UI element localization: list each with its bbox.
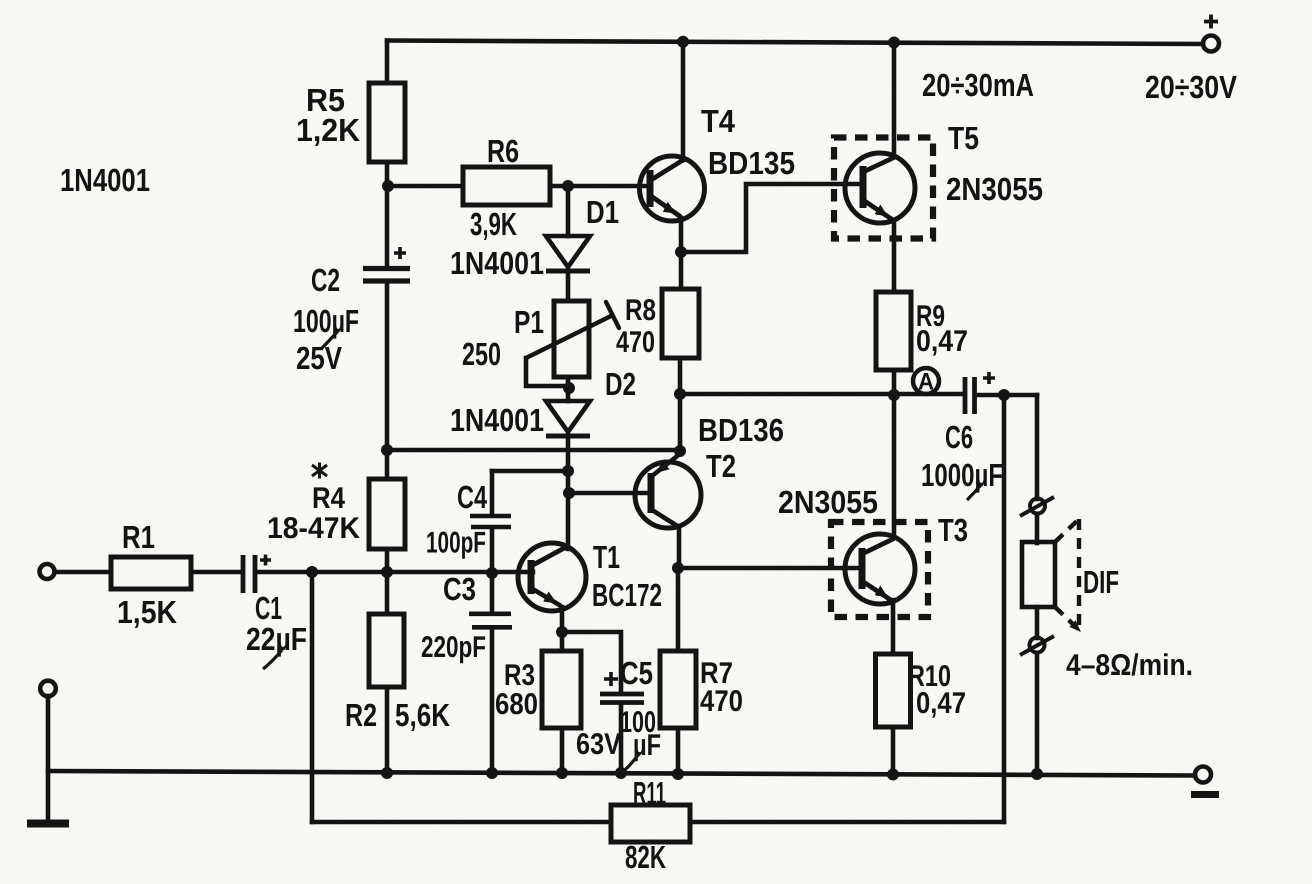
wire T3 emitter to R10 [891, 600, 896, 654]
wire R4 top [385, 450, 390, 479]
node R4 R2 input [381, 566, 393, 578]
capacitor C6 plates [965, 377, 975, 414]
svg-text:22µF: 22µF [246, 621, 307, 657]
wire T4 collector [681, 42, 686, 160]
svg-text:1N4001: 1N4001 [60, 162, 150, 198]
svg-text:0,47: 0,47 [916, 325, 968, 358]
node R7 ground [672, 768, 684, 780]
svg-text:D1: D1 [586, 194, 619, 230]
node T5 collector on rail [888, 37, 900, 49]
wire R8 top [679, 252, 684, 289]
wire ground rail [48, 771, 1195, 776]
node C5 ground [615, 767, 627, 779]
speaker DIF body [1022, 542, 1055, 607]
transistor T4 [640, 156, 705, 221]
wire R4 bottom to R2 top [385, 549, 390, 614]
svg-text:R2: R2 [345, 697, 377, 733]
capacitor C6 polarity plus [983, 372, 995, 384]
svg-text:C6: C6 [945, 419, 973, 455]
resistor R1 [111, 557, 191, 589]
wire T2 emitter column [678, 394, 683, 452]
capacitor C5 polarity plus [604, 672, 618, 686]
wire R3 bottom to ground rail [560, 728, 565, 773]
resistor R7 [660, 651, 696, 728]
input ground terminal [40, 681, 56, 697]
diode D2 [546, 401, 590, 436]
svg-text:0,47: 0,47 [916, 687, 966, 720]
wire C6 output to speaker branch [976, 393, 1037, 398]
svg-text:A: A [918, 369, 934, 396]
supply plus sign [1204, 15, 1218, 29]
transistor T3 [845, 534, 915, 604]
svg-text:C5: C5 [620, 655, 653, 691]
resistor R10 [876, 654, 911, 727]
svg-text:63V: 63V [576, 728, 621, 761]
connector bottom of speaker [1020, 636, 1054, 655]
wire node bias to R6 [387, 184, 463, 189]
node D1 top [562, 180, 574, 192]
node R3 ground [556, 767, 568, 779]
node T4 emitter [675, 246, 687, 258]
mu tail of 22uF [263, 650, 282, 669]
ammeter A [913, 368, 939, 396]
svg-text:R8: R8 [625, 294, 656, 327]
output minus sign [1191, 791, 1219, 798]
svg-text:1,5K: 1,5K [117, 594, 177, 630]
svg-text:250: 250 [462, 336, 501, 372]
wire bootstrap horizontal [387, 448, 680, 453]
svg-text:20÷30V: 20÷30V [1145, 69, 1238, 105]
svg-text:18-47K: 18-47K [267, 512, 360, 545]
node C1 feedback input [306, 566, 318, 578]
svg-text:2N3055: 2N3055 [778, 484, 878, 520]
wire ground terminal column [46, 696, 51, 820]
capacitor C5 plates [600, 694, 644, 703]
svg-text:1000µF: 1000µF [921, 457, 1003, 493]
wire T5 collector [892, 43, 897, 157]
supply terminal positive [1203, 36, 1219, 52]
transistor T1 [518, 543, 586, 611]
svg-text:BD136: BD136 [698, 412, 784, 448]
svg-text:T2: T2 [706, 448, 736, 484]
svg-text:470: 470 [616, 326, 655, 359]
wire speaker to connector 2 [1035, 607, 1040, 638]
capacitor C2 polarity plus [394, 247, 406, 259]
wire C4 column top [490, 471, 495, 514]
node T2 collector T3 base [672, 562, 684, 574]
wire top supply rail [387, 41, 1203, 45]
capacitor C1 plates [243, 555, 255, 593]
wire feedback column left [310, 572, 315, 822]
wire T2 collector down [677, 526, 682, 568]
svg-text:DIF: DIF [1083, 564, 1119, 600]
wire R2 bottom to ground rail [385, 687, 390, 773]
wire input terminal to R1 [55, 570, 111, 575]
svg-text:4–8Ω/min.: 4–8Ω/min. [1066, 649, 1193, 682]
node T1 emitter C5 [556, 626, 568, 638]
svg-text:1,2K: 1,2K [296, 112, 360, 148]
wire T5 emitter to R9 [892, 220, 897, 292]
potentiometer P1 body [554, 301, 589, 377]
svg-text:C2: C2 [311, 262, 340, 298]
wire C4 to C3 through base node [490, 529, 495, 611]
svg-text:R11: R11 [633, 775, 666, 811]
svg-text:R6: R6 [487, 133, 519, 169]
speaker cone arrowhead [1069, 620, 1081, 632]
node T4 collector on rail [677, 36, 689, 48]
node P1 wiper D2 [563, 382, 575, 394]
wire C1 to T1 base [258, 570, 533, 575]
transistor T3 dashed outline [831, 522, 928, 617]
wire R5 bottom to C2 [385, 162, 390, 266]
wire R8 bottom to output node [678, 358, 683, 394]
capacitor C1 polarity plus [260, 555, 271, 566]
wire T2 collector to T3 base [678, 566, 863, 571]
resistor R11 [611, 805, 690, 842]
wire T3 collector up [892, 395, 897, 538]
node C4 tee [562, 465, 574, 477]
resistor R6 [463, 167, 550, 205]
wire R1 to C1 [191, 570, 240, 575]
wire T4 emitter to T5 base [681, 184, 863, 252]
wire C2 bottom down [385, 284, 390, 450]
transistor T2 [635, 453, 701, 528]
svg-text:20÷30mA: 20÷30mA [922, 67, 1034, 103]
node C3 ground [486, 767, 498, 779]
ground symbol [27, 820, 69, 828]
node T2 base [563, 487, 575, 499]
wire C5 bottom to ground rail [619, 705, 624, 773]
svg-text:2N3055: 2N3055 [946, 171, 1043, 207]
transistor T5 [845, 153, 915, 223]
wire R5 top [385, 41, 390, 84]
svg-text:100µF: 100µF [293, 303, 359, 339]
node R5 R6 C2 [382, 180, 394, 192]
wire connector to speaker [1035, 514, 1040, 543]
input terminal [40, 564, 55, 579]
svg-text:P1: P1 [514, 304, 544, 340]
node speaker ground [1031, 768, 1043, 780]
node R2 ground [381, 767, 393, 779]
wire P1 to D2 [566, 377, 571, 401]
wire C3 bottom to ground rail [490, 630, 495, 774]
mu tail of uF C5 [625, 754, 639, 770]
node R10 ground [887, 769, 899, 781]
svg-text:100pF: 100pF [426, 527, 486, 560]
svg-text:T5: T5 [948, 120, 979, 156]
wire D1 anode [566, 186, 571, 236]
svg-text:680: 680 [495, 688, 538, 721]
wire C5 branch [562, 632, 621, 691]
node C4 C3 base [486, 567, 498, 579]
svg-text:220pF: 220pF [421, 631, 486, 664]
wire R7 top [676, 568, 681, 651]
wire P1 wiper [526, 358, 569, 386]
wire T2 base link [569, 491, 651, 496]
resistor R5 [369, 83, 405, 162]
svg-text:C4: C4 [457, 479, 487, 515]
resistor R2 [369, 614, 404, 687]
mu tail of 100uF C2 [322, 331, 338, 348]
connector top of speaker [1020, 497, 1054, 516]
resistor R4 [369, 479, 405, 549]
svg-text:BD135: BD135 [708, 145, 795, 181]
resistor R8 [662, 289, 699, 358]
wire feedback to R11 [312, 820, 611, 825]
wire R10 bottom to ground rail [891, 727, 896, 775]
node C6 feedback [998, 389, 1010, 401]
wire R7 bottom to ground rail [676, 728, 681, 774]
wire D1 cathode to P1 [566, 273, 571, 301]
svg-text:470: 470 [700, 685, 743, 718]
wire R6 to T4 base [550, 184, 651, 189]
resistor R9 [876, 292, 911, 370]
capacitor C4 plates [470, 516, 511, 527]
svg-text:82K: 82K [625, 839, 666, 875]
wire R11 right to output column [690, 820, 1004, 825]
wire output rail horizontal [680, 392, 963, 397]
wire output column up to C6 node [1002, 395, 1007, 822]
node T2 emitter bootstrap [674, 445, 686, 457]
node R8 bottom output [674, 388, 686, 400]
svg-text:5,6K: 5,6K [395, 697, 450, 733]
svg-text:D2: D2 [605, 366, 636, 402]
wire T1 emitter down [560, 607, 565, 632]
output terminal [1195, 767, 1211, 783]
node C2 bootstrap [381, 444, 393, 456]
capacitor C3 plates [469, 614, 512, 628]
svg-text:C3: C3 [443, 571, 476, 607]
wire connector 2 to ground rail [1035, 653, 1040, 774]
potentiometer P1 wiper arrow [526, 302, 619, 358]
svg-text:T4: T4 [701, 103, 735, 139]
wire R9 bottom to output node [892, 370, 897, 395]
wire D2 cathode down to T1 collector [566, 436, 571, 549]
mu tail of 1000uF C6 [967, 485, 981, 500]
diode D1 [546, 236, 590, 271]
resistor R3 [542, 651, 581, 728]
svg-text:T1: T1 [593, 539, 620, 575]
svg-text:25V: 25V [296, 340, 343, 376]
svg-text:1N4001: 1N4001 [450, 245, 544, 281]
svg-text:R1: R1 [122, 519, 155, 555]
svg-text:1N4001: 1N4001 [450, 402, 544, 438]
wire T1 emitter to R3 [560, 632, 565, 651]
wire T4 emitter down [679, 218, 684, 252]
svg-text:R4: R4 [312, 482, 345, 515]
svg-text:3,9K: 3,9K [470, 206, 517, 242]
wire C4 top link [492, 469, 568, 474]
speaker DIF dashed cone [1055, 519, 1079, 630]
node R9 bottom output [888, 389, 900, 401]
capacitor C2 plates [363, 269, 410, 282]
transistor T5 dashed outline [834, 138, 933, 239]
label R4 select mark [312, 463, 327, 479]
svg-text:T3: T3 [938, 512, 968, 548]
svg-text:BC172: BC172 [592, 577, 662, 613]
wire speaker column top [1035, 395, 1040, 499]
